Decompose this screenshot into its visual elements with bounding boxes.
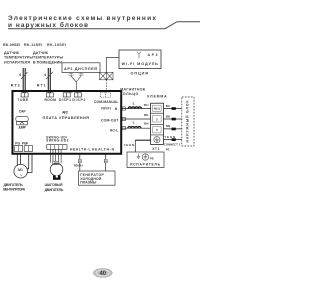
svg-text:АР1 ДИСПЛЕЙ: АР1 ДИСПЛЕЙ xyxy=(64,67,97,71)
svg-text:N: N xyxy=(115,107,118,111)
svg-text:CAP: CAP xyxy=(19,110,27,114)
svg-text:M1: M1 xyxy=(18,168,23,172)
svg-text:COM-OUT: COM-OUT xyxy=(101,118,119,122)
svg-text:RT2: RT2 xyxy=(11,83,20,87)
svg-text:Электрические схемы внутренни: Электрические схемы внутренних xyxy=(8,15,156,22)
svg-text:BU: BU xyxy=(166,104,171,108)
svg-text:RD BU: RD BU xyxy=(74,163,84,167)
svg-text:ДАТЧИК: ДАТЧИК xyxy=(33,51,49,55)
svg-text:RK-12SEI: RK-12SEI xyxy=(24,43,42,47)
svg-text:RK-09SEI: RK-09SEI xyxy=(3,43,20,47)
svg-text:AC-L: AC-L xyxy=(110,129,118,133)
svg-text:~: ~ xyxy=(20,173,23,178)
svg-text:L: L xyxy=(133,121,136,125)
svg-text:ПЛАЗМЫ: ПЛАЗМЫ xyxy=(80,181,97,185)
svg-text:YEGN: YEGN xyxy=(164,135,176,139)
svg-text:3: 3 xyxy=(156,128,158,132)
svg-text:ВЕНТИЛЯТОРА: ВЕНТИЛЯТОРА xyxy=(3,188,26,192)
svg-text:PGF: PGF xyxy=(22,141,29,145)
svg-text:DISP2: DISP2 xyxy=(72,98,85,102)
svg-text:АР2: АР2 xyxy=(62,111,68,115)
svg-text:ОПЦИЯ: ОПЦИЯ xyxy=(131,72,149,76)
svg-text:МАГНИТНОЕ: МАГНИТНОЕ xyxy=(120,87,146,91)
svg-text:ТЕМПЕРАТУРЫ: ТЕМПЕРАТУРЫ xyxy=(33,56,63,60)
svg-text:BK: BK xyxy=(166,114,171,118)
svg-text:θ: θ xyxy=(44,73,46,77)
svg-text:В ПОМЕЩЕНИИ: В ПОМЕЩЕНИИ xyxy=(33,60,62,64)
svg-text:SWING-UD2: SWING-UD2 xyxy=(46,139,69,143)
svg-text:HEALTH-L: HEALTH-L xyxy=(70,147,91,151)
svg-text:WI-FI МОДУЛЬ: WI-FI МОДУЛЬ xyxy=(122,62,159,66)
svg-text:ИСПАРИТЕЛЯ: ИСПАРИТЕЛЯ xyxy=(4,60,30,64)
svg-text:ДВИГАТЕЛЬ: ДВИГАТЕЛЬ xyxy=(45,188,64,192)
svg-text:BK: BK xyxy=(144,113,149,117)
svg-text:/WIFI: /WIFI xyxy=(101,106,111,110)
svg-text:BU: BU xyxy=(144,103,149,107)
svg-text:RK-18SEI: RK-18SEI xyxy=(47,43,66,47)
svg-text:АР3: АР3 xyxy=(148,53,158,57)
svg-text:ROOM: ROOM xyxy=(44,98,56,102)
svg-text:и наружных блоков: и наружных блоков xyxy=(8,21,88,29)
svg-text:КОЛЬЦО: КОЛЬЦО xyxy=(120,92,138,96)
svg-text:N(1): N(1) xyxy=(154,107,160,111)
svg-text:40: 40 xyxy=(99,271,106,277)
svg-text:ПЛАТА УПРАВЛЕНИЯ: ПЛАТА УПРАВЛЕНИЯ xyxy=(43,116,90,120)
svg-text:XT1: XT1 xyxy=(152,147,159,151)
svg-text:2: 2 xyxy=(156,117,158,121)
svg-text:COM-MANUAL: COM-MANUAL xyxy=(94,100,119,104)
svg-text:КЛЕММА: КЛЕММА xyxy=(147,94,167,98)
svg-text:HEALTH-N: HEALTH-N xyxy=(92,147,115,151)
svg-text:θ: θ xyxy=(19,73,21,77)
svg-text:ИСПАРИТЕЛЬ: ИСПАРИТЕЛЬ xyxy=(130,163,161,167)
svg-text:НАРУЖНЫЙ БЛОК: НАРУЖНЫЙ БЛОК xyxy=(186,100,190,143)
svg-text:JUMP: JUMP xyxy=(18,126,27,130)
svg-text:PE: PE xyxy=(150,156,154,160)
svg-text:ШАГОВЫЙ: ШАГОВЫЙ xyxy=(45,183,64,187)
svg-text:ДАТЧИК: ДАТЧИК xyxy=(4,51,20,55)
svg-text:BN: BN xyxy=(144,121,149,125)
svg-text:RT1: RT1 xyxy=(37,83,46,87)
svg-text:ДВИГАТЕЛЬ: ДВИГАТЕЛЬ xyxy=(4,183,24,187)
svg-text:L: L xyxy=(133,102,136,106)
svg-text:YEGN: YEGN xyxy=(124,143,135,147)
svg-text:ТЕМПЕРАТУРЫ: ТЕМПЕРАТУРЫ xyxy=(4,56,33,60)
svg-text:PE: PE xyxy=(166,148,170,152)
svg-text:CONNECT 1: CONNECT 1 xyxy=(164,142,181,146)
svg-text:DISP1: DISP1 xyxy=(59,98,71,102)
svg-text:PG: PG xyxy=(15,141,20,145)
svg-text:TUBE: TUBE xyxy=(17,98,29,102)
svg-text:BN: BN xyxy=(166,124,171,128)
